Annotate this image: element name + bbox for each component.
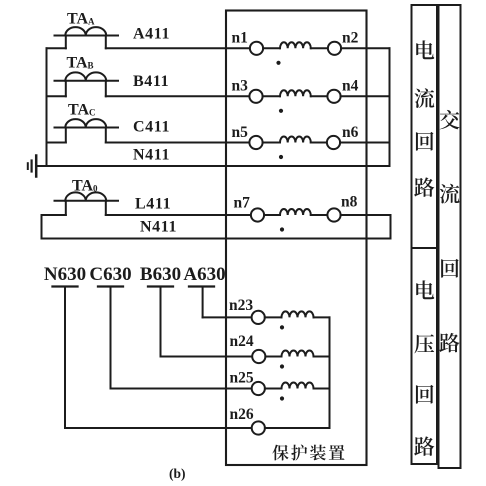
svg-text:A411: A411 [133,26,170,43]
svg-text:n1: n1 [232,30,248,47]
svg-text:B411: B411 [133,73,169,90]
svg-text:n24: n24 [230,333,254,350]
svg-text:n3: n3 [232,78,249,95]
svg-text:n25: n25 [230,370,254,387]
svg-text:(b): (b) [169,466,186,481]
svg-text:N411: N411 [140,219,177,236]
svg-text:A630: A630 [183,264,225,285]
svg-text:L411: L411 [135,196,171,213]
svg-text:n4: n4 [342,78,359,95]
svg-text:n26: n26 [230,406,254,423]
svg-text:n2: n2 [342,30,359,47]
svg-text:C411: C411 [133,119,170,136]
svg-text:n8: n8 [341,194,358,211]
svg-text:n23: n23 [229,297,253,314]
svg-text:n6: n6 [342,124,359,141]
svg-text:C630: C630 [89,264,131,285]
svg-text:n7: n7 [234,195,251,212]
svg-text:n5: n5 [232,124,249,141]
svg-text:N630: N630 [44,264,86,285]
svg-text:B630: B630 [140,264,181,285]
svg-text:N411: N411 [133,147,170,164]
